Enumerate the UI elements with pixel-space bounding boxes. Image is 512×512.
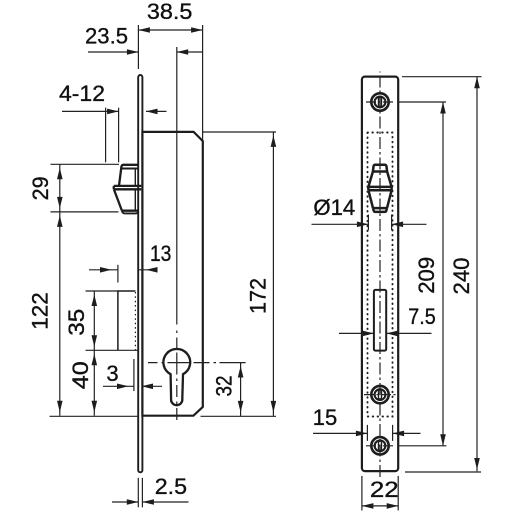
euro cylinder keyhole bbox=[163, 349, 190, 405]
dimension 122 bbox=[59, 212, 61, 416]
lock body (side view) bbox=[142, 132, 202, 416]
bottom screw hole bbox=[371, 437, 388, 454]
svg-text:172: 172 bbox=[246, 278, 271, 314]
svg-text:13: 13 bbox=[150, 241, 172, 266]
dimension 29 bbox=[51, 164, 120, 212]
latch bolt (side view) bbox=[114, 165, 142, 214]
center line (cylinder axis, vertical) bbox=[176, 47, 178, 325]
svg-text:122: 122 bbox=[28, 292, 53, 330]
svg-text:2.5: 2.5 bbox=[155, 474, 187, 499]
svg-text:7.5: 7.5 bbox=[408, 304, 436, 329]
dimension 3 bbox=[103, 359, 162, 391]
mounting box (35mm) bbox=[118, 291, 135, 350]
dimension 2.5 bbox=[112, 478, 189, 507]
center line (cylinder axis, horizontal) bbox=[148, 362, 246, 364]
svg-text:32: 32 bbox=[211, 376, 236, 397]
dimension 7.5 bbox=[339, 332, 432, 334]
bottom extension line (left of body) bbox=[50, 415, 139, 417]
vertical center line bbox=[379, 72, 381, 479]
dimension 38.5 bbox=[138, 25, 202, 141]
top screw hole bbox=[371, 93, 388, 110]
latch bolt (front view) bbox=[368, 165, 391, 212]
svg-text:15: 15 bbox=[313, 405, 337, 430]
svg-text:40: 40 bbox=[68, 361, 93, 389]
dimension 15 bbox=[313, 425, 421, 441]
lock case (hidden, dotted) bbox=[368, 133, 393, 417]
svg-text:240: 240 bbox=[449, 258, 474, 295]
dimension 13 bbox=[89, 265, 158, 283]
dimension 240 bbox=[402, 77, 482, 472]
svg-text:3: 3 bbox=[106, 361, 118, 386]
dimension 209 bbox=[399, 102, 447, 446]
dotted right edge of box bbox=[134, 293, 136, 351]
svg-text:Ø14: Ø14 bbox=[313, 195, 355, 220]
dimension 35 bbox=[86, 291, 139, 350]
dimension 22 bbox=[362, 476, 398, 511]
svg-text:22: 22 bbox=[370, 477, 399, 502]
slot (7.5mm) bbox=[374, 290, 386, 351]
svg-text:29: 29 bbox=[28, 176, 53, 200]
bottom extension line (right of body) bbox=[201, 415, 277, 417]
dimension Ø14 bbox=[312, 215, 427, 231]
dimension 40 bbox=[93, 350, 95, 415]
svg-text:35: 35 bbox=[64, 309, 89, 336]
svg-text:209: 209 bbox=[414, 257, 439, 294]
dimension 172 bbox=[203, 132, 276, 416]
dimension 4-12 bbox=[62, 108, 167, 163]
middle screw hole bbox=[371, 386, 388, 403]
svg-text:23.5: 23.5 bbox=[85, 24, 128, 49]
dimension 32 bbox=[240, 363, 242, 416]
svg-text:38.5: 38.5 bbox=[147, 0, 193, 24]
faceplate (front view) bbox=[362, 77, 398, 472]
dimension 23.5 bbox=[88, 51, 202, 53]
faceplate (side view, 2.5mm strip) bbox=[138, 75, 142, 472]
svg-text:4-12: 4-12 bbox=[59, 81, 105, 106]
